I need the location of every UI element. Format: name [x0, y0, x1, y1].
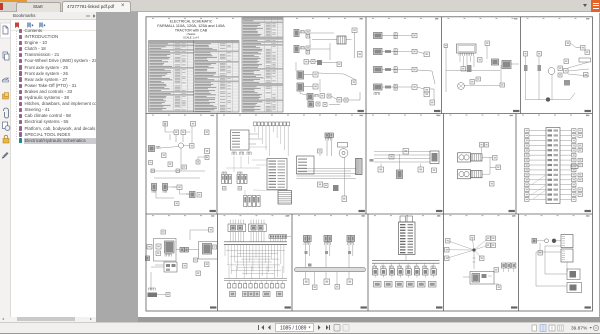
svg-text:39.87%: 39.87% — [571, 326, 588, 332]
svg-text:TRACTOR with CAB: TRACTOR with CAB — [175, 28, 208, 32]
svg-text:SCALE 1 of 4: SCALE 1 of 4 — [183, 36, 199, 40]
svg-text:1085 / 1089: 1085 / 1089 — [280, 326, 307, 332]
svg-text:FARMALL 110A, 120A, 125A and 1: FARMALL 110A, 120A, 125A and 140A — [157, 23, 225, 28]
